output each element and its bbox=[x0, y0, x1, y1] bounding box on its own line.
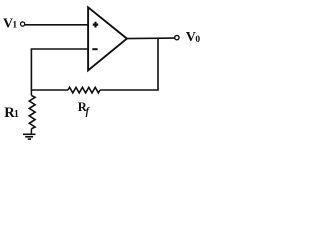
wire non-inverting input bbox=[25, 24, 88, 26]
resistor Rf bbox=[68, 87, 100, 93]
output terminal Vo bbox=[175, 35, 179, 39]
ground bbox=[23, 134, 36, 139]
op-amp U1 bbox=[88, 7, 127, 70]
wire feedback left bbox=[31, 89, 68, 91]
wire output bbox=[127, 37, 175, 40]
input terminal V1 bbox=[21, 22, 25, 26]
wire feedback right bbox=[100, 39, 158, 90]
wire inverting input bbox=[31, 49, 88, 90]
resistor R1 bbox=[29, 90, 35, 134]
